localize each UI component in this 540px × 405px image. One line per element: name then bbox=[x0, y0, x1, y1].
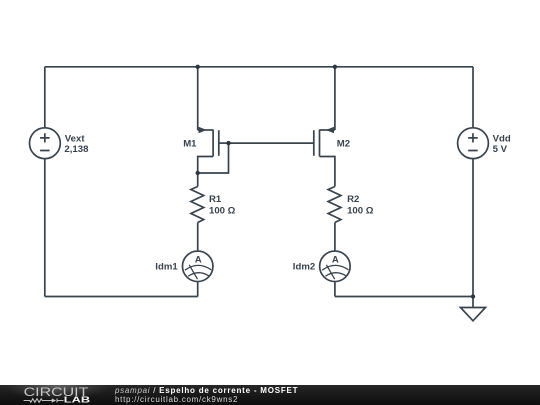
svg-text:M2: M2 bbox=[337, 138, 350, 149]
node M1 source bbox=[196, 171, 200, 175]
wire bottom-right rail bbox=[335, 296, 473, 298]
CircuitLab logo bbox=[0, 385, 120, 405]
svg-text:A: A bbox=[195, 255, 202, 266]
node top rail M2 bbox=[333, 65, 337, 69]
node ground junction bbox=[471, 294, 475, 298]
svg-text:Vext: Vext bbox=[65, 134, 86, 145]
ground bbox=[461, 308, 486, 321]
voltage source Vdd bbox=[458, 128, 489, 159]
svg-text:LAB: LAB bbox=[64, 396, 90, 405]
wire Vdd bottom bbox=[472, 159, 474, 297]
wire left (Vext top) bbox=[44, 67, 46, 128]
svg-text:R2: R2 bbox=[347, 194, 359, 205]
wire Idm1 bottom bbox=[197, 282, 199, 297]
svg-text:Idm2: Idm2 bbox=[293, 261, 315, 272]
transistor M1 bbox=[198, 67, 229, 173]
wire top rail bbox=[45, 66, 473, 68]
wire bottom-left rail bbox=[45, 296, 198, 298]
svg-text:100 Ω: 100 Ω bbox=[347, 206, 374, 217]
wire M1 source to R1 bbox=[197, 173, 199, 187]
ammeter Idm1 bbox=[182, 251, 213, 282]
wire R2 to Idm2 bbox=[334, 223, 336, 252]
node top rail M1 bbox=[196, 65, 200, 69]
svg-text:5 V: 5 V bbox=[493, 144, 508, 155]
svg-text:R1: R1 bbox=[209, 194, 222, 205]
wire gate bus M1-M2 bbox=[229, 142, 314, 144]
svg-text:Vdd: Vdd bbox=[493, 134, 511, 145]
wire R1 to Idm1 bbox=[197, 223, 199, 252]
wire ground stub bbox=[472, 297, 474, 308]
node M1 gate bbox=[226, 141, 230, 145]
wire Idm2 bottom bbox=[334, 282, 336, 297]
wire right (Vdd top) bbox=[472, 67, 474, 128]
svg-text:100 Ω: 100 Ω bbox=[209, 206, 236, 217]
svg-text:M1: M1 bbox=[183, 138, 197, 149]
transistor M2 bbox=[314, 67, 335, 187]
svg-text:Idm1: Idm1 bbox=[155, 261, 178, 272]
footer bar bbox=[0, 385, 540, 405]
resistor R1 bbox=[191, 187, 204, 223]
voltage source Vext bbox=[30, 128, 61, 159]
resistor R2 bbox=[328, 187, 341, 223]
svg-text:2,138: 2,138 bbox=[64, 144, 89, 155]
wire Vext bottom bbox=[44, 159, 46, 297]
ammeter Idm2 bbox=[320, 251, 351, 282]
svg-text:A: A bbox=[332, 255, 339, 266]
